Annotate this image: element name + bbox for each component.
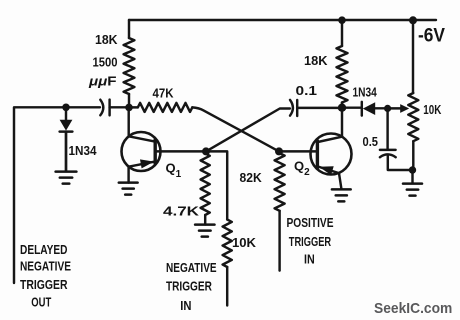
svg-text:SeekIC.com: SeekIC.com [374,300,452,317]
svg-text:TRIGGER: TRIGGER [289,234,332,249]
svg-text:NEGATIVE: NEGATIVE [20,259,71,274]
svg-text:1N34: 1N34 [69,143,98,158]
svg-text:IN: IN [180,298,191,313]
svg-text:OUT: OUT [31,294,51,309]
svg-text:TRIGGER: TRIGGER [166,279,212,294]
svg-text:TRIGGER: TRIGGER [20,277,68,292]
svg-text:0.1: 0.1 [296,83,318,98]
svg-text:DELAYED: DELAYED [20,242,68,257]
svg-text:82K: 82K [240,170,263,185]
svg-text:18K: 18K [95,32,118,47]
svg-text:-6V: -6V [418,25,445,46]
svg-text:1N34: 1N34 [353,85,378,100]
svg-text:IN: IN [304,251,315,266]
svg-text:47K: 47K [153,86,175,101]
svg-text:18K: 18K [304,53,328,68]
svg-text:10K: 10K [232,235,257,250]
svg-text:NEGATIVE: NEGATIVE [166,260,217,275]
svg-text:1500: 1500 [93,55,118,70]
svg-text:10K: 10K [423,102,441,117]
svg-text:4.7K: 4.7K [163,204,200,219]
svg-text:0.5: 0.5 [363,134,379,149]
svg-text:POSITIVE: POSITIVE [287,215,334,230]
svg-text:μμF: μμF [88,74,117,89]
